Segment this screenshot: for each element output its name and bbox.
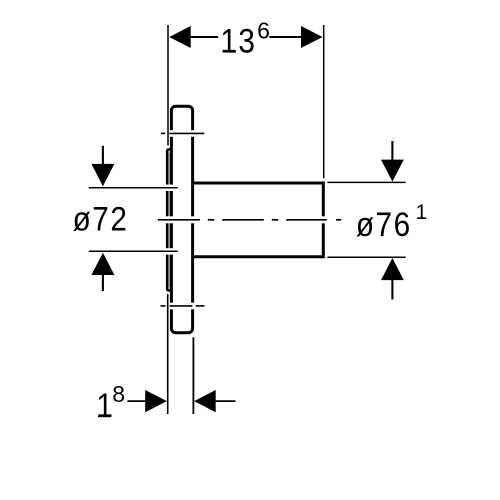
svg-text:1: 1: [96, 386, 113, 424]
svg-text:ø76: ø76: [356, 205, 412, 243]
svg-text:ø72: ø72: [73, 200, 129, 238]
svg-text:6: 6: [257, 18, 270, 44]
svg-text:8: 8: [112, 381, 125, 407]
svg-text:13: 13: [220, 22, 256, 60]
svg-text:1: 1: [416, 201, 428, 224]
